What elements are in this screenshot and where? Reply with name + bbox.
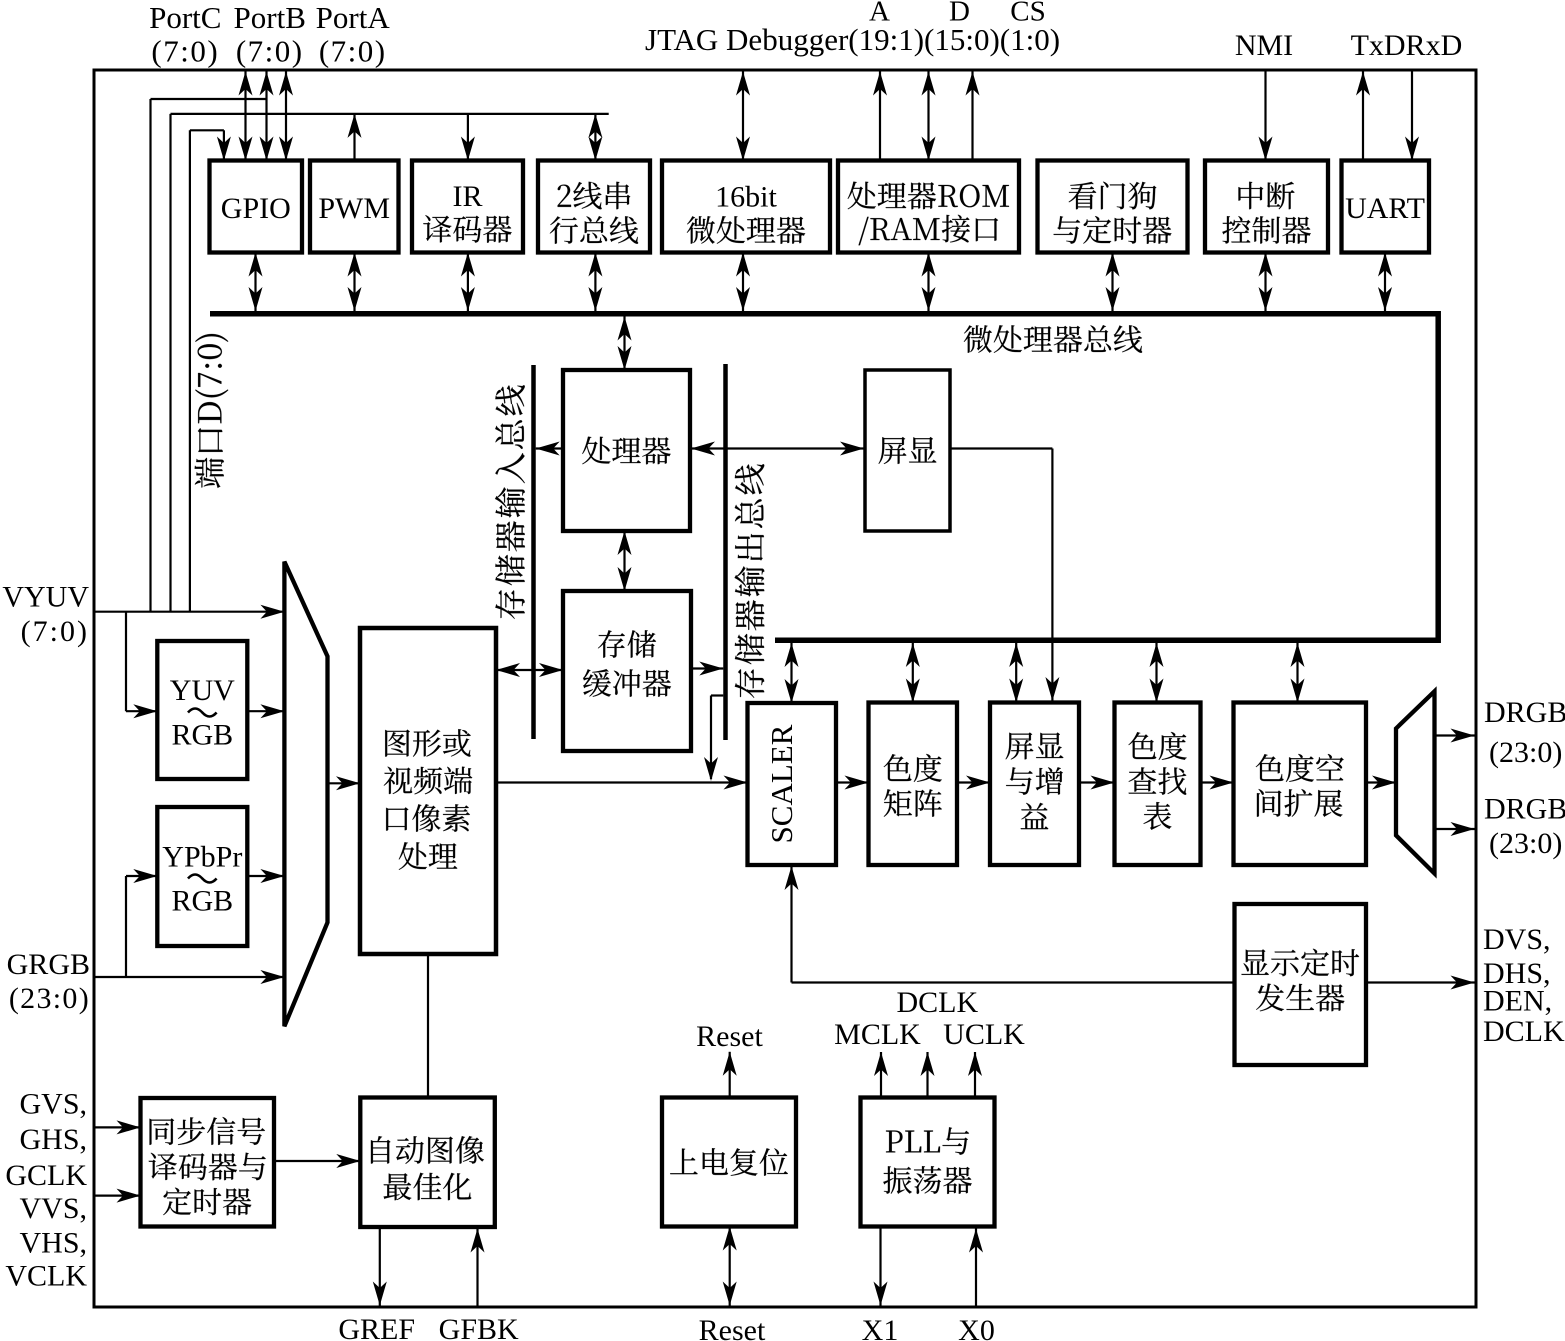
svg-text:GVS,: GVS, — [19, 1087, 87, 1120]
wire pixel processing to scaler — [496, 776, 748, 790]
svg-text:GHS,: GHS, — [19, 1123, 87, 1156]
wire GRGB branch to YPbPr converter — [126, 869, 157, 977]
label GFBK — [439, 1313, 519, 1341]
block GPIO — [210, 161, 303, 253]
output mux — [1396, 691, 1435, 873]
svg-text:PWM: PWM — [318, 192, 390, 225]
svg-text:UCLK: UCLK — [943, 1018, 1025, 1051]
wire DRGB output 1 — [1435, 729, 1475, 743]
wire YPbPr converter to mux — [247, 869, 284, 883]
label CS — [1010, 0, 1045, 27]
block OSD — [865, 370, 950, 531]
wire DRGB output 2 — [1435, 822, 1475, 836]
label VYUV (7:0) — [21, 615, 89, 648]
svg-text:GFBK: GFBK — [439, 1313, 519, 1341]
label A — [869, 0, 890, 27]
svg-text:PortB: PortB — [234, 0, 306, 35]
label PortC — [149, 0, 221, 35]
wire UART to microprocessor bus — [1378, 253, 1392, 312]
svg-text:VCLK: VCLK — [5, 1259, 87, 1292]
label UCLK — [943, 1018, 1025, 1051]
svg-text:UART: UART — [1345, 192, 1425, 225]
wire chroma lookup to color space expansion — [1201, 776, 1234, 790]
wire MCLK out — [874, 1052, 888, 1098]
svg-text:VYUV: VYUV — [2, 580, 89, 613]
label PortA — [316, 0, 391, 35]
svg-text:X0: X0 — [958, 1314, 995, 1341]
label GHS — [19, 1123, 87, 1156]
wire ROM/RAM to microprocessor bus — [922, 253, 936, 312]
label VHS — [19, 1226, 87, 1259]
wire sync inputs V — [94, 1189, 141, 1203]
wire watchdog to microprocessor bus — [1106, 253, 1120, 312]
wire X0 in — [969, 1229, 983, 1306]
label DCLK — [896, 986, 978, 1019]
label Reset bottom — [699, 1314, 766, 1341]
svg-text:NMI: NMI — [1235, 29, 1293, 62]
svg-text:PortC: PortC — [149, 0, 221, 35]
wire display timing to SCALER feedback — [785, 866, 1235, 983]
label GCLK — [5, 1159, 87, 1192]
label MCLK — [834, 1018, 921, 1051]
wire port D elbow 1 — [151, 99, 267, 612]
label X1 — [862, 1314, 899, 1341]
label memory output bus — [735, 464, 765, 698]
wire display timing outputs — [1366, 976, 1475, 990]
block power-on reset — [662, 1098, 796, 1227]
block 16bit microprocessor — [662, 161, 830, 253]
wire OSD and gain to chroma lookup — [1079, 776, 1115, 790]
wire SCALER to chroma matrix — [836, 776, 869, 790]
svg-text:GREF: GREF — [338, 1313, 415, 1341]
label DEN — [1483, 984, 1552, 1017]
wire YUV converter to mux — [247, 704, 284, 718]
wire sync inputs G — [94, 1120, 141, 1134]
input mux — [284, 562, 327, 1027]
label DRGB 2 (23:0) — [1489, 827, 1562, 860]
wire processor to OSD — [691, 442, 864, 456]
svg-text:TxDRxD: TxDRxD — [1351, 29, 1463, 62]
wire DCLK out — [921, 1052, 935, 1098]
svg-text:VHS,: VHS, — [19, 1226, 87, 1259]
label X0 — [958, 1314, 995, 1341]
svg-text:(23:0): (23:0) — [1489, 827, 1562, 860]
wire memory buffer to memory output bus — [691, 662, 723, 676]
svg-text:(23:0): (23:0) — [9, 982, 90, 1015]
block IR decoder — [412, 161, 523, 253]
svg-text:DCLK: DCLK — [1483, 1015, 1565, 1048]
wire bus to SCALER — [785, 643, 799, 703]
block 2-wire serial bus — [538, 161, 650, 253]
label DRGB 1 (23:0) — [1489, 736, 1562, 769]
svg-text:GPIO: GPIO — [221, 192, 291, 225]
block processor — [563, 370, 690, 531]
svg-text:GCLK: GCLK — [5, 1159, 87, 1192]
svg-text:(7:0): (7:0) — [236, 34, 304, 69]
block auto image optimization — [360, 1098, 495, 1228]
svg-text:YPbPr: YPbPr — [162, 840, 242, 873]
block YUV to RGB — [157, 641, 247, 779]
svg-text:RGB: RGB — [171, 884, 233, 917]
wire bus to color space expansion — [1291, 643, 1305, 703]
label TxDRxD — [1351, 29, 1463, 62]
svg-text:IR: IR — [453, 180, 483, 213]
wire interrupt ctrl to microprocessor bus — [1259, 253, 1273, 312]
label PortB (7:0) — [236, 34, 304, 69]
wire port line to 2-wire serial — [588, 114, 602, 161]
wire Reset pin — [723, 1227, 737, 1306]
wire UCLK out — [968, 1052, 982, 1098]
wire JTAG to 16bit micro — [736, 72, 750, 161]
wire memory output bus to scaler input — [704, 696, 723, 782]
svg-text:PortA: PortA — [316, 0, 391, 35]
svg-text:GRGB: GRGB — [7, 948, 90, 981]
block color space expansion — [1234, 703, 1367, 866]
block OSD and gain — [990, 703, 1079, 866]
label GVS — [19, 1087, 87, 1120]
svg-text:SCALER: SCALER — [764, 724, 799, 843]
label VCLK — [5, 1259, 87, 1292]
wire color space expansion to output mux — [1366, 776, 1396, 790]
label DRGB 2 — [1484, 792, 1565, 825]
wire pixel processing to auto image — [427, 954, 429, 1098]
block UART — [1342, 161, 1430, 253]
label DRGB 1 — [1484, 696, 1565, 729]
label VVS — [19, 1192, 87, 1225]
label DCLK out — [1483, 1015, 1565, 1048]
wire processor to memory input bus — [536, 442, 563, 456]
label port D(7:0) — [195, 334, 229, 488]
memory output bus — [723, 364, 728, 740]
svg-text:DVS,: DVS, — [1483, 923, 1551, 956]
label memory input bus — [495, 385, 525, 619]
wire NMI in — [1259, 70, 1273, 161]
wire Reset out — [723, 1052, 737, 1098]
label JTAG Debugger(19:1)(15:0)(1:0) — [645, 22, 1060, 57]
label DHS — [1483, 957, 1551, 990]
wire D data bus — [922, 72, 936, 161]
svg-text:DCLK: DCLK — [896, 986, 978, 1019]
wire GRGB input — [94, 970, 284, 984]
label PortA (7:0) — [319, 34, 387, 69]
memory input bus — [531, 365, 536, 739]
svg-text:(7:0): (7:0) — [319, 34, 387, 69]
label PortB — [234, 0, 306, 35]
wire A address out — [873, 72, 887, 161]
label Reset top — [696, 1020, 763, 1053]
svg-text:Reset: Reset — [699, 1314, 766, 1341]
wire X1 in — [874, 1227, 888, 1306]
label D — [949, 0, 970, 27]
wire IR to microprocessor bus — [461, 253, 475, 312]
svg-text:YUV: YUV — [170, 674, 235, 707]
label DVS — [1483, 923, 1551, 956]
svg-text:JTAG Debugger(19:1)(15:0)(1:0): JTAG Debugger(19:1)(15:0)(1:0) — [645, 22, 1060, 57]
wire PortA to GPIO — [279, 72, 293, 161]
svg-text:RGB: RGB — [171, 718, 233, 751]
wire input mux to pixel processing — [328, 776, 361, 790]
wire 16bit micro to microprocessor bus — [736, 253, 750, 312]
block graphics/video port pixel processing — [360, 628, 496, 954]
block chroma lookup table — [1115, 703, 1201, 866]
wire 2-wire serial to microprocessor bus — [588, 253, 602, 312]
svg-text:16bit: 16bit — [715, 180, 777, 213]
wire PortC to GPIO — [239, 72, 253, 161]
svg-text:(23:0): (23:0) — [1489, 736, 1562, 769]
block processor ROM/RAM interface — [838, 161, 1019, 253]
wire VYUV input — [94, 605, 284, 619]
wire bus to chroma lookup — [1150, 643, 1164, 703]
block interrupt controller — [1205, 161, 1328, 253]
block PWM — [310, 161, 399, 253]
wire port D elbow 2 — [171, 114, 609, 612]
wire PWM up to port line — [348, 114, 362, 161]
label NMI — [1235, 29, 1293, 62]
svg-text:DEN,: DEN, — [1483, 984, 1552, 1017]
block watchdog and timer — [1038, 161, 1188, 253]
wire GPIO to microprocessor bus — [249, 253, 263, 312]
svg-text:Reset: Reset — [696, 1020, 763, 1053]
wire TxD out — [1356, 72, 1370, 161]
block PLL and oscillator — [861, 1098, 995, 1227]
svg-text:DRGB: DRGB — [1484, 792, 1565, 825]
svg-text:DRGB: DRGB — [1484, 696, 1565, 729]
wire port line down to IR — [461, 114, 475, 161]
label microprocessor bus — [964, 325, 1142, 353]
wire CS out — [966, 72, 980, 161]
label PortC (7:0) — [151, 34, 219, 69]
label GRGB (23:0) — [9, 982, 90, 1015]
svg-text:(7:0): (7:0) — [151, 34, 219, 69]
block memory buffer — [563, 591, 691, 751]
wire PortB to GPIO — [260, 72, 274, 161]
block YPbPr to RGB — [157, 807, 247, 946]
wire sync decoder to auto image — [274, 1154, 360, 1168]
wire chroma matrix to OSD and gain — [957, 776, 990, 790]
label GRGB — [7, 948, 90, 981]
svg-text:(7:0): (7:0) — [21, 615, 89, 648]
label VYUV — [2, 580, 89, 613]
wire processor to microprocessor bus — [618, 317, 632, 371]
wire pixel processing to memory buffer — [496, 663, 563, 677]
wire RxD in — [1405, 70, 1419, 161]
wire processor to memory buffer — [618, 531, 632, 591]
wire bus to chroma matrix — [906, 643, 920, 703]
block chroma matrix — [869, 703, 958, 866]
wire GFBK in — [471, 1229, 485, 1306]
microprocessor bus — [210, 314, 1438, 641]
label GREF — [338, 1313, 415, 1341]
svg-text:MCLK: MCLK — [834, 1018, 921, 1051]
wire bus to OSD and gain — [1009, 643, 1023, 703]
block SCALER — [748, 703, 837, 865]
wire OSD output elbow — [950, 449, 1059, 702]
wire port D elbow 3 — [190, 130, 231, 611]
block display timing generator — [1235, 904, 1367, 1065]
block sync signal decoder and timer — [141, 1098, 275, 1227]
wire PWM to microprocessor bus — [348, 253, 362, 312]
wire GREF out — [373, 1227, 387, 1306]
svg-text:VVS,: VVS, — [19, 1192, 87, 1225]
wire VYUV branch to YUV converter — [126, 612, 157, 719]
svg-text:X1: X1 — [862, 1314, 899, 1341]
